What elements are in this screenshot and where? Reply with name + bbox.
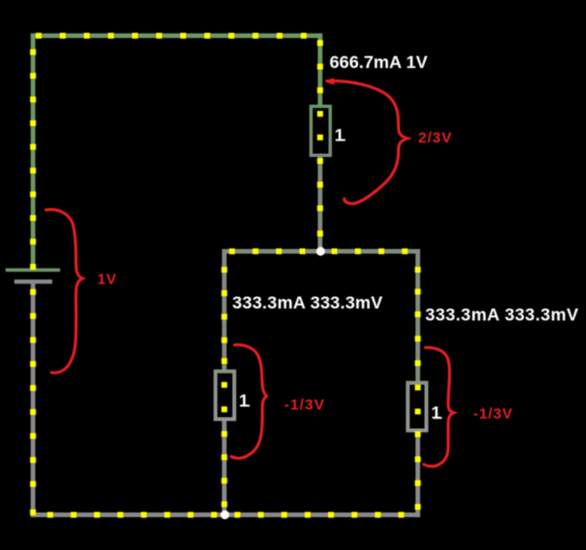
svg-text:666.7mA 1V: 666.7mA 1V	[330, 52, 428, 72]
svg-text:-1/3V: -1/3V	[284, 397, 325, 414]
svg-text:1: 1	[431, 403, 441, 423]
svg-text:333.3mA 333.3mV: 333.3mA 333.3mV	[232, 293, 383, 313]
svg-text:-1/3V: -1/3V	[473, 406, 513, 423]
svg-text:1: 1	[239, 391, 249, 411]
svg-text:1V: 1V	[97, 271, 116, 288]
svg-text:2/3V: 2/3V	[418, 130, 452, 147]
svg-text:1: 1	[335, 125, 345, 145]
svg-text:333.3mA 333.3mV: 333.3mA 333.3mV	[425, 305, 579, 325]
